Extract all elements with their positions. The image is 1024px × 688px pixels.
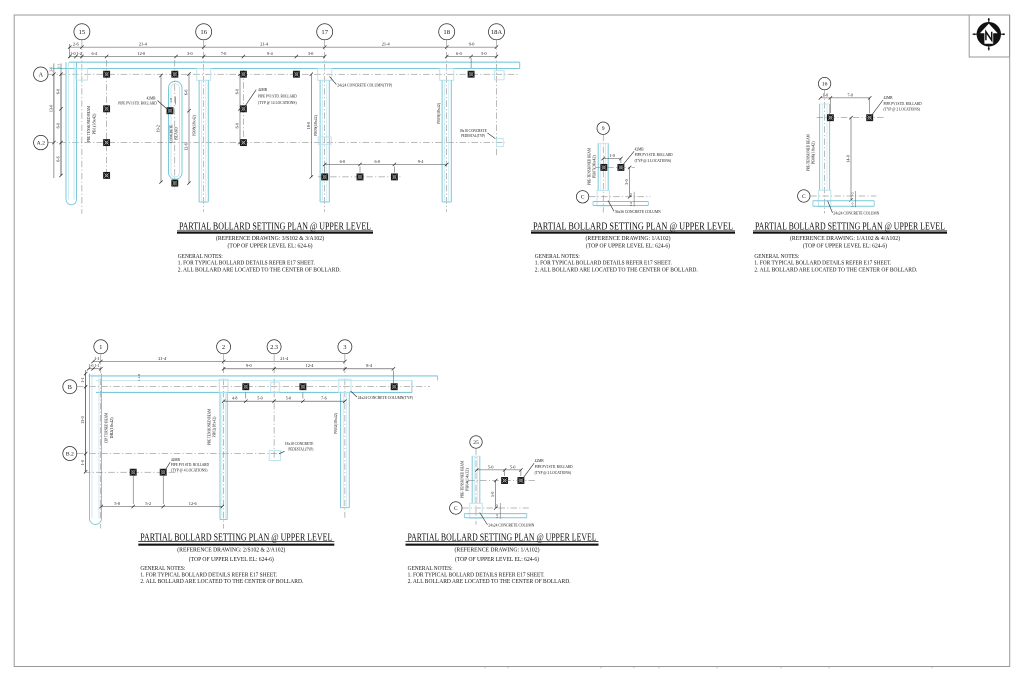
svg-text:25: 25 bbox=[473, 440, 479, 446]
svg-text:2. ALL BOLLARD ARE LOCATED TO: 2. ALL BOLLARD ARE LOCATED TO THE CENTER… bbox=[754, 267, 917, 274]
svg-text:7-6: 7-6 bbox=[321, 396, 326, 401]
svg-text:B: B bbox=[68, 384, 72, 391]
svg-text:PEDESTAL(TYP): PEDESTAL(TYP) bbox=[288, 446, 313, 451]
svg-text:2.3: 2.3 bbox=[270, 344, 278, 351]
svg-text:21-4: 21-4 bbox=[139, 42, 148, 47]
svg-text:12-6: 12-6 bbox=[184, 143, 189, 151]
svg-text:1-1.0: 1-1.0 bbox=[137, 374, 141, 381]
svg-text:12-0: 12-0 bbox=[138, 51, 146, 56]
svg-text:8-4: 8-4 bbox=[366, 363, 373, 368]
svg-text:42MB: 42MB bbox=[884, 95, 893, 100]
svg-text:1-0: 1-0 bbox=[609, 153, 614, 158]
svg-text:1-0: 1-0 bbox=[169, 98, 173, 103]
svg-text:18x18 CONCRETE: 18x18 CONCRETE bbox=[285, 441, 314, 446]
svg-text:9-4: 9-4 bbox=[267, 51, 272, 56]
svg-text:(TOP OF UPPER LEVEL EL: 624-6): (TOP OF UPPER LEVEL EL: 624-6) bbox=[228, 243, 313, 250]
svg-text:24x24 CONCRETE COLUMN: 24x24 CONCRETE COLUMN bbox=[833, 211, 880, 216]
svg-text:6-0: 6-0 bbox=[56, 89, 61, 94]
svg-text:16: 16 bbox=[200, 29, 207, 36]
svg-text:(TOP OF UPPER LEVEL EL: 624-6): (TOP OF UPPER LEVEL EL: 624-6) bbox=[586, 243, 670, 250]
svg-text:42MB: 42MB bbox=[535, 458, 544, 463]
svg-text:(TYP @ 2 LOCATIONS): (TYP @ 2 LOCATIONS) bbox=[884, 107, 921, 112]
svg-text:3: 3 bbox=[343, 344, 346, 351]
svg-text:(TYP @ 14 LOCATIONS): (TYP @ 14 LOCATIONS) bbox=[258, 100, 297, 105]
svg-text:15: 15 bbox=[79, 29, 86, 36]
svg-text:PB02(18x42): PB02(18x42) bbox=[212, 416, 217, 438]
svg-text:5-0: 5-0 bbox=[286, 396, 291, 401]
svg-text:PB1(18x42): PB1(18x42) bbox=[91, 113, 96, 135]
svg-text:B.2: B.2 bbox=[66, 451, 74, 457]
svg-text:3-0: 3-0 bbox=[308, 51, 313, 56]
svg-text:A.2: A.2 bbox=[37, 141, 45, 147]
svg-text:C: C bbox=[802, 194, 806, 200]
svg-text:5-0: 5-0 bbox=[481, 51, 486, 56]
svg-text:1-2: 1-2 bbox=[629, 193, 633, 198]
svg-text:1-2: 1-2 bbox=[495, 504, 499, 509]
svg-text:PRE TENSIONED BEAM: PRE TENSIONED BEAM bbox=[86, 106, 91, 142]
svg-text:2. ALL BOLLARD ARE LOCATED TO: 2. ALL BOLLARD ARE LOCATED TO THE CENTER… bbox=[535, 267, 698, 274]
svg-text:12-6: 12-6 bbox=[189, 501, 198, 506]
svg-text:24x24 CONCRETE COLUMN(TYP): 24x24 CONCRETE COLUMN(TYP) bbox=[358, 395, 413, 400]
svg-text:1-0: 1-0 bbox=[80, 460, 85, 465]
svg-text:42MB: 42MB bbox=[171, 457, 180, 462]
svg-text:DB2(18x42): DB2(18x42) bbox=[109, 417, 114, 439]
svg-text:21-4: 21-4 bbox=[382, 42, 391, 47]
svg-text:9-0: 9-0 bbox=[246, 363, 252, 368]
svg-text:6-0: 6-0 bbox=[340, 159, 345, 164]
svg-text:14-0: 14-0 bbox=[846, 155, 851, 163]
svg-text:18x18 CONCRETE: 18x18 CONCRETE bbox=[459, 128, 487, 133]
svg-text:(REFERENCE DRAWING: 2/S102 & 2: (REFERENCE DRAWING: 2/S102 & 2/A102) bbox=[177, 547, 285, 554]
svg-text:CIP TURNED BEAM: CIP TURNED BEAM bbox=[104, 413, 109, 443]
svg-text:13-0: 13-0 bbox=[80, 416, 85, 424]
svg-text:5-0: 5-0 bbox=[490, 492, 495, 497]
svg-text:6-0: 6-0 bbox=[456, 51, 461, 56]
svg-text:16: 16 bbox=[822, 82, 828, 88]
svg-text:PIPE PVI STD. BOLLARD: PIPE PVI STD. BOLLARD bbox=[118, 101, 156, 106]
svg-text:6-0: 6-0 bbox=[56, 123, 61, 128]
svg-text:A: A bbox=[39, 71, 44, 78]
svg-text:5-2: 5-2 bbox=[145, 501, 151, 506]
svg-text:18A: 18A bbox=[491, 29, 503, 36]
svg-text:2-6: 2-6 bbox=[73, 42, 80, 47]
svg-text:2: 2 bbox=[222, 344, 225, 351]
svg-text:17: 17 bbox=[321, 29, 328, 36]
svg-text:1. FOR TYPICAL BOLLARD DETAILS: 1. FOR TYPICAL BOLLARD DETAILS REFER E17… bbox=[754, 259, 891, 266]
svg-text:PB02(18x42): PB02(18x42) bbox=[333, 412, 338, 434]
svg-text:12-4: 12-4 bbox=[306, 363, 315, 368]
svg-text:(TOP OF UPPER LEVEL EL: 624-6): (TOP OF UPPER LEVEL EL: 624-6) bbox=[803, 243, 887, 250]
svg-text:18-0: 18-0 bbox=[306, 122, 311, 130]
svg-text:PIPE PVI STD. BOLLARD: PIPE PVI STD. BOLLARD bbox=[258, 93, 297, 98]
svg-text:(REFERENCE DRAWING: 1/A102): (REFERENCE DRAWING: 1/A102) bbox=[455, 547, 540, 554]
svg-text:6-0: 6-0 bbox=[374, 159, 379, 164]
svg-text:PEDESTAL(TYP): PEDESTAL(TYP) bbox=[461, 133, 485, 138]
svg-text:5-0: 5-0 bbox=[488, 464, 493, 469]
svg-text:PB04(14x32): PB04(14x32) bbox=[464, 467, 469, 491]
svg-text:24x24 CONCRETE COLUMN(TYP): 24x24 CONCRETE COLUMN(TYP) bbox=[337, 82, 392, 87]
svg-text:19-2: 19-2 bbox=[156, 125, 161, 133]
svg-text:(REFERENCE DRAWING: 1/A102): (REFERENCE DRAWING: 1/A102) bbox=[586, 235, 671, 242]
svg-text:ISLAND: ISLAND bbox=[174, 127, 179, 140]
svg-text:2. ALL BOLLARD ARE LOCATED TO: 2. ALL BOLLARD ARE LOCATED TO THE CENTER… bbox=[408, 578, 571, 585]
svg-text:(TOP OF UPPER LEVEL EL: 624-6): (TOP OF UPPER LEVEL EL: 624-6) bbox=[455, 556, 539, 563]
svg-text:6-4: 6-4 bbox=[92, 51, 97, 56]
svg-text:42MB: 42MB bbox=[635, 146, 644, 151]
svg-text:2. ALL BOLLARD ARE LOCATED TO: 2. ALL BOLLARD ARE LOCATED TO THE CENTER… bbox=[140, 578, 303, 585]
svg-text:42MB: 42MB bbox=[258, 87, 267, 92]
svg-text:1-1: 1-1 bbox=[94, 364, 99, 368]
svg-text:(REFERENCE DRAWING: 3/S102 & 3: (REFERENCE DRAWING: 3/S102 & 3/A102) bbox=[216, 235, 324, 242]
svg-text:(TYP @ 4 LOCATIONS): (TYP @ 4 LOCATIONS) bbox=[171, 468, 208, 473]
svg-text:1-2: 1-2 bbox=[851, 192, 855, 197]
svg-text:(TYP @ 2 LOCATIONS): (TYP @ 2 LOCATIONS) bbox=[535, 470, 572, 475]
svg-text:(TYP @ 2 LOCATIONS): (TYP @ 2 LOCATIONS) bbox=[635, 158, 672, 163]
svg-text:24x24 CONCRETE COLUMN: 24x24 CONCRETE COLUMN bbox=[488, 523, 535, 528]
svg-text:PB07(36x42): PB07(36x42) bbox=[591, 155, 596, 179]
svg-text:4-8: 4-8 bbox=[232, 396, 237, 401]
svg-text:1-0: 1-0 bbox=[495, 514, 499, 519]
svg-text:3-0: 3-0 bbox=[624, 179, 629, 184]
svg-text:PB09(18x42): PB09(18x42) bbox=[436, 102, 441, 124]
svg-text:PB06(18x42): PB06(18x42) bbox=[811, 141, 816, 165]
svg-text:C: C bbox=[454, 506, 458, 512]
svg-text:1-2: 1-2 bbox=[76, 51, 81, 56]
svg-text:9-4: 9-4 bbox=[418, 159, 423, 164]
svg-text:2. ALL BOLLARD ARE LOCATED TO: 2. ALL BOLLARD ARE LOCATED TO THE CENTER… bbox=[178, 267, 341, 274]
svg-text:1-1: 1-1 bbox=[57, 63, 61, 68]
svg-text:5-0: 5-0 bbox=[257, 396, 262, 401]
svg-text:1-0: 1-0 bbox=[88, 364, 93, 368]
svg-text:1-0: 1-0 bbox=[851, 202, 855, 207]
svg-text:9: 9 bbox=[602, 126, 605, 132]
svg-text:1-1: 1-1 bbox=[94, 356, 100, 361]
svg-text:21-4: 21-4 bbox=[260, 42, 269, 47]
svg-text:1: 1 bbox=[99, 344, 102, 351]
svg-text:PIPE PVI STD. BOLLARD: PIPE PVI STD. BOLLARD bbox=[535, 464, 573, 469]
svg-text:7-0: 7-0 bbox=[847, 92, 852, 97]
svg-text:1-0: 1-0 bbox=[70, 51, 75, 56]
svg-text:PB08(18x42): PB08(18x42) bbox=[191, 115, 196, 137]
svg-text:42MB: 42MB bbox=[147, 95, 156, 100]
svg-text:1. FOR TYPICAL BOLLARD DETAILS: 1. FOR TYPICAL BOLLARD DETAILS REFER E17… bbox=[535, 259, 672, 266]
svg-text:PIPE PVI STD. BOLLARD: PIPE PVI STD. BOLLARD bbox=[171, 462, 209, 467]
svg-text:9-0: 9-0 bbox=[469, 42, 475, 47]
svg-text:(REFERENCE DRAWING: 1/A102 & 4: (REFERENCE DRAWING: 1/A102 & 4/A102) bbox=[790, 235, 900, 242]
svg-text:PB09(18x42): PB09(18x42) bbox=[313, 115, 318, 137]
svg-text:1-0: 1-0 bbox=[823, 92, 828, 97]
svg-text:6-6: 6-6 bbox=[184, 90, 189, 95]
svg-text:6-0: 6-0 bbox=[235, 89, 240, 94]
svg-text:PIPE PVI STD. BOLLARD: PIPE PVI STD. BOLLARD bbox=[884, 101, 922, 106]
svg-text:3-0: 3-0 bbox=[187, 51, 192, 56]
svg-text:6-0: 6-0 bbox=[235, 123, 240, 128]
svg-text:36x36 CONCRETE COLUMN: 36x36 CONCRETE COLUMN bbox=[615, 209, 662, 214]
svg-text:5-0: 5-0 bbox=[114, 501, 120, 506]
svg-text:PRE TENSIONED BEAM: PRE TENSIONED BEAM bbox=[206, 409, 211, 445]
svg-text:1-1: 1-1 bbox=[80, 377, 85, 382]
svg-text:21-4: 21-4 bbox=[158, 356, 167, 361]
svg-text:5-0: 5-0 bbox=[510, 464, 515, 469]
svg-text:1-0: 1-0 bbox=[629, 201, 633, 206]
svg-text:7-0: 7-0 bbox=[221, 51, 226, 56]
svg-text:18: 18 bbox=[443, 29, 450, 36]
svg-text:3-6: 3-6 bbox=[49, 67, 53, 72]
svg-text:C: C bbox=[581, 195, 585, 201]
svg-text:13-0: 13-0 bbox=[48, 105, 53, 113]
svg-text:PIPE PVI STD. BOLLARD: PIPE PVI STD. BOLLARD bbox=[635, 152, 673, 157]
svg-text:1. FOR TYPICAL BOLLARD DETAILS: 1. FOR TYPICAL BOLLARD DETAILS REFER E17… bbox=[178, 259, 315, 266]
svg-text:(TOP OF UPPER LEVEL EL: 624-6): (TOP OF UPPER LEVEL EL: 624-6) bbox=[189, 556, 274, 563]
svg-text:6-6: 6-6 bbox=[56, 156, 61, 161]
svg-text:21-4: 21-4 bbox=[280, 356, 289, 361]
